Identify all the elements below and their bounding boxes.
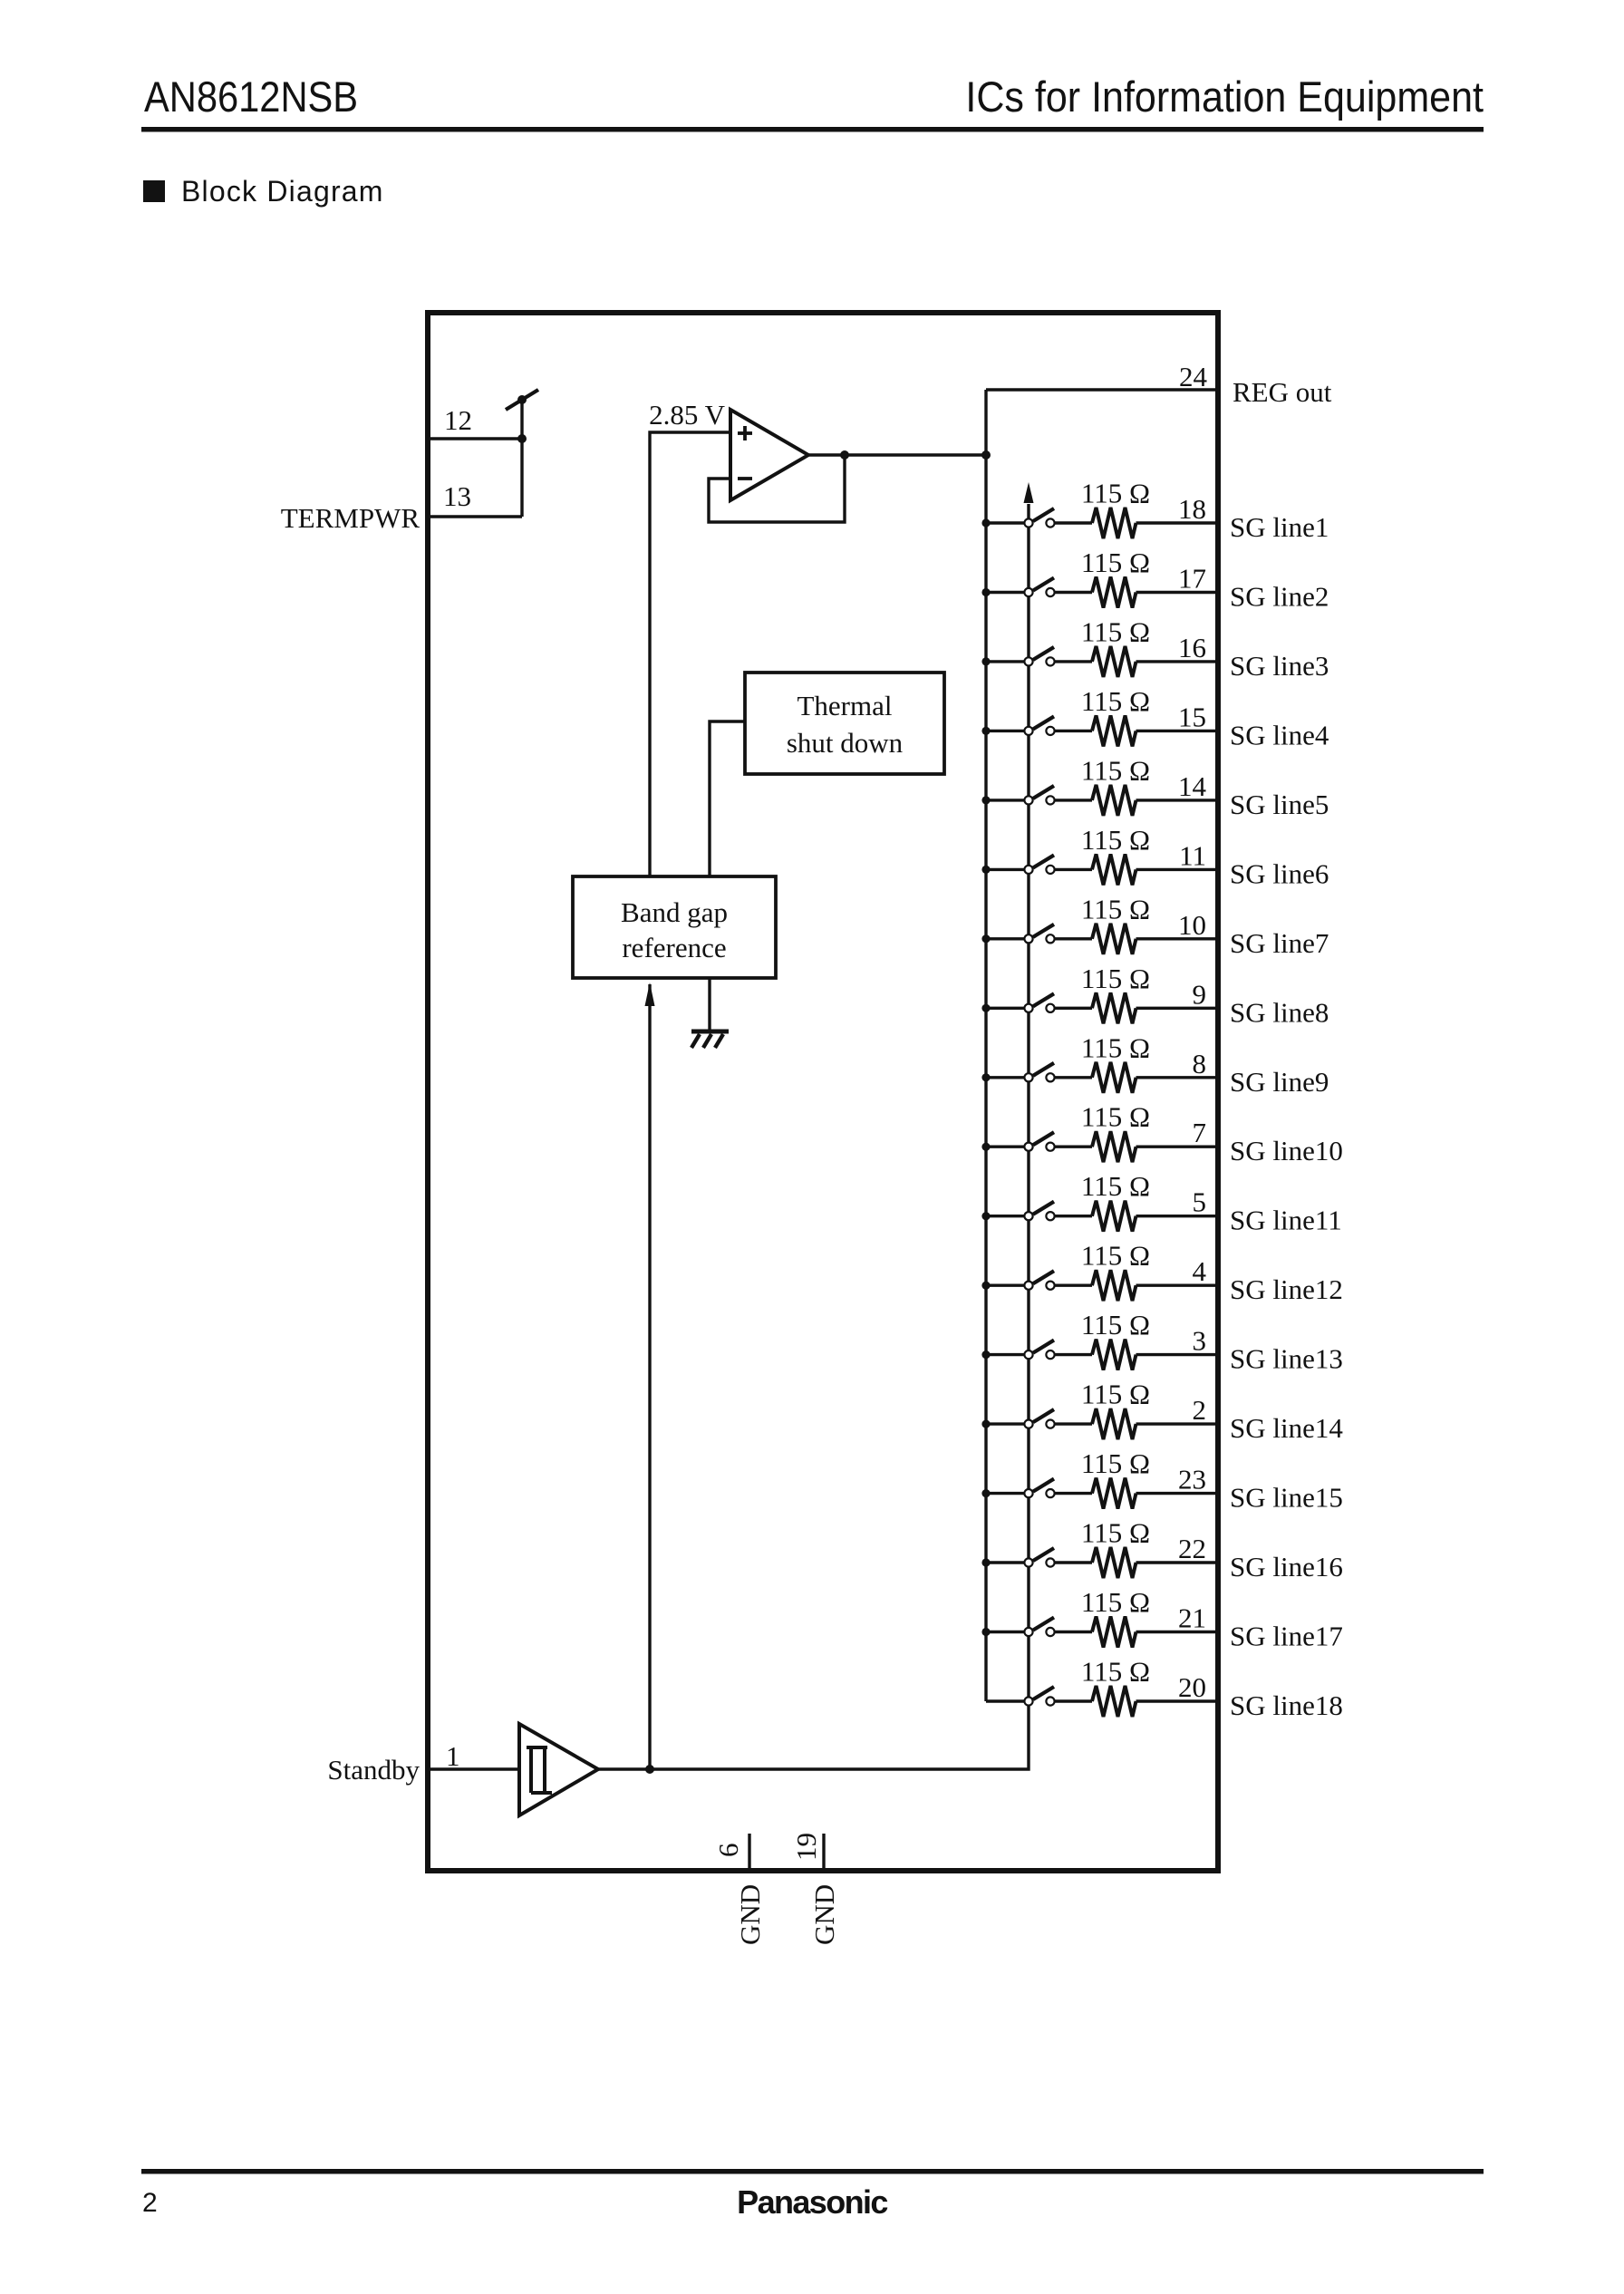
switch SW12 pivot — [1024, 1282, 1032, 1290]
svg-text:20: 20 — [1178, 1671, 1206, 1703]
wire standby input stub — [428, 1767, 519, 1770]
junction bus row 6 — [981, 866, 990, 874]
svg-text:SG line10: SG line10 — [1230, 1135, 1343, 1166]
svg-text:12: 12 — [444, 404, 472, 436]
resistor R9 — [1092, 1062, 1136, 1093]
wire REG out — [986, 388, 1218, 391]
wire GND pin 19 stub — [822, 1834, 825, 1871]
wire switch to resistor row 8 — [1055, 1007, 1092, 1010]
switch SW5 blade — [1033, 786, 1054, 799]
svg-text:11: 11 — [1179, 839, 1206, 871]
switch SW1 contact — [1046, 518, 1054, 527]
IC outline box — [428, 313, 1218, 1871]
switch SW0 blade — [506, 390, 538, 410]
op-amp U1 body — [730, 410, 808, 500]
svg-text:115 Ω: 115 Ω — [1081, 685, 1150, 717]
svg-text:shut down: shut down — [787, 727, 904, 759]
switch SW4 contact — [1046, 727, 1054, 735]
section heading: Block Diagram — [143, 175, 384, 208]
svg-text:SG line14: SG line14 — [1230, 1412, 1343, 1444]
wire feedback loop to − input — [709, 455, 845, 522]
switch SW17 pivot — [1024, 1628, 1032, 1636]
junction bus row 1 — [981, 518, 990, 527]
wire SG row 5 from bus to switch — [986, 799, 1024, 801]
wire op-amp output — [808, 453, 986, 456]
svg-text:2: 2 — [142, 2188, 158, 2218]
wire switch to resistor row 14 — [1055, 1422, 1092, 1425]
wire switch control line from standby buffer — [598, 504, 1029, 1769]
wire SG row 3 from bus to switch — [986, 660, 1024, 663]
switch SW6 blade — [1033, 855, 1054, 867]
svg-text:Thermal: Thermal — [797, 690, 892, 721]
junction bus row 7 — [981, 934, 990, 943]
wire pin12 stub — [428, 437, 522, 440]
wire 2.85V reference from band gap to op-amp + input — [650, 432, 730, 876]
wire SG row 18 from bus to switch — [986, 1699, 1024, 1702]
resistor R15 — [1092, 1478, 1136, 1509]
junction bus row 4 — [981, 727, 990, 735]
resistor R2 — [1092, 577, 1136, 608]
wire joining pins 12 and 13 — [520, 400, 523, 517]
switch SW13 blade — [1033, 1341, 1054, 1353]
wire pin13 stub — [428, 515, 522, 518]
svg-text:SG line13: SG line13 — [1230, 1343, 1343, 1375]
resistor R6 — [1092, 854, 1136, 885]
junction pin12/13 tie — [517, 434, 527, 443]
wire resistor to pin row 6 — [1136, 868, 1219, 871]
switch SW18 contact — [1046, 1697, 1054, 1705]
svg-text:SG line8: SG line8 — [1230, 996, 1329, 1028]
svg-text:115 Ω: 115 Ω — [1081, 1309, 1150, 1341]
svg-text:SG line18: SG line18 — [1230, 1689, 1343, 1721]
svg-text:SG line17: SG line17 — [1230, 1621, 1343, 1652]
svg-text:115 Ω: 115 Ω — [1081, 1586, 1150, 1618]
arrowhead into band gap reference — [645, 982, 655, 1006]
svg-text:18: 18 — [1178, 493, 1206, 525]
svg-text:Band gap: Band gap — [621, 896, 728, 928]
svg-text:Standby: Standby — [327, 1754, 420, 1786]
wire resistor to pin row 9 — [1136, 1076, 1219, 1079]
switch SW10 contact — [1046, 1143, 1054, 1151]
svg-text:115 Ω: 115 Ω — [1081, 1447, 1150, 1479]
wire resistor to pin row 3 — [1136, 660, 1219, 663]
wire band gap to ground — [708, 978, 710, 1031]
switch SW9 pivot — [1024, 1073, 1032, 1081]
wire switch to resistor row 15 — [1055, 1492, 1092, 1495]
svg-text:5: 5 — [1193, 1186, 1207, 1218]
wire switch to resistor row 5 — [1055, 799, 1092, 801]
switch SW14 blade — [1033, 1409, 1054, 1422]
op-amp − symbol — [738, 477, 752, 480]
wire switch to resistor row 9 — [1055, 1076, 1092, 1079]
svg-text:3: 3 — [1193, 1325, 1207, 1357]
switch SW5 pivot — [1024, 796, 1032, 804]
arrowhead switch control — [1024, 482, 1034, 503]
switch SW11 pivot — [1024, 1212, 1032, 1220]
svg-text:1: 1 — [446, 1740, 460, 1772]
junction bus row 2 — [981, 588, 990, 596]
wire SG row 1 from bus to switch — [986, 521, 1024, 524]
switch SW17 contact — [1046, 1628, 1054, 1636]
junction bus row 3 — [981, 657, 990, 665]
wire REG bus vertical — [984, 390, 987, 1701]
wire resistor to pin row 2 — [1136, 591, 1219, 594]
wire standby node up to band gap (bias enable) — [648, 984, 651, 1769]
svg-text:115 Ω: 115 Ω — [1081, 615, 1150, 647]
block: Band gap reference — [573, 876, 776, 978]
svg-text:115 Ω: 115 Ω — [1081, 1170, 1150, 1202]
junction bus row 10 — [981, 1143, 990, 1151]
switch SW16 pivot — [1024, 1558, 1032, 1566]
switch SW3 contact — [1046, 657, 1054, 665]
switch SW15 blade — [1033, 1479, 1054, 1492]
wire SG row 8 from bus to switch — [986, 1007, 1024, 1010]
wire SG row 13 from bus to switch — [986, 1353, 1024, 1356]
wire SG row 7 from bus to switch — [986, 937, 1024, 940]
resistor R4 — [1092, 715, 1136, 746]
resistor R5 — [1092, 785, 1136, 816]
svg-text:Panasonic: Panasonic — [737, 2183, 887, 2221]
resistor R12 — [1092, 1270, 1136, 1301]
switch SW16 blade — [1033, 1548, 1054, 1561]
switch SW6 pivot — [1024, 866, 1032, 874]
wire resistor to pin row 5 — [1136, 799, 1219, 801]
svg-text:SG line1: SG line1 — [1230, 511, 1329, 543]
resistor R13 — [1092, 1340, 1136, 1370]
junction bus row 11 — [981, 1212, 990, 1220]
svg-text:Block Diagram: Block Diagram — [181, 175, 384, 208]
svg-text:14: 14 — [1178, 770, 1207, 802]
wire resistor to pin row 15 — [1136, 1492, 1219, 1495]
footer rule — [141, 2169, 1484, 2174]
svg-text:SG line12: SG line12 — [1230, 1273, 1343, 1305]
svg-text:GND: GND — [734, 1884, 766, 1945]
wire SG row 16 from bus to switch — [986, 1561, 1024, 1563]
wire SG row 10 from bus to switch — [986, 1145, 1024, 1147]
resistor R1 — [1092, 508, 1136, 538]
switch SW7 blade — [1033, 924, 1054, 937]
svg-text:REG out: REG out — [1232, 376, 1332, 408]
svg-text:8: 8 — [1193, 1048, 1207, 1079]
switch SW1 pivot — [1024, 518, 1032, 527]
svg-text:TERMPWR: TERMPWR — [281, 502, 420, 534]
svg-text:115 Ω: 115 Ω — [1081, 478, 1150, 509]
resistor R8 — [1092, 992, 1136, 1023]
switch SW13 pivot — [1024, 1350, 1032, 1359]
wire switch to resistor row 2 — [1055, 591, 1092, 594]
svg-text:SG line4: SG line4 — [1230, 719, 1329, 750]
switch SW1 blade — [1033, 508, 1054, 521]
wire SG row 15 from bus to switch — [986, 1492, 1024, 1495]
wire SG row 4 from bus to switch — [986, 730, 1024, 732]
svg-text:7: 7 — [1193, 1117, 1207, 1148]
switch SW10 blade — [1033, 1132, 1054, 1145]
resistor R18 — [1092, 1686, 1136, 1717]
wire resistor to pin row 14 — [1136, 1422, 1219, 1425]
svg-text:115 Ω: 115 Ω — [1081, 1656, 1150, 1688]
switch SW8 pivot — [1024, 1004, 1032, 1012]
switch SW18 pivot — [1024, 1697, 1032, 1705]
switch SW16 contact — [1046, 1558, 1054, 1566]
wire SG row 6 from bus to switch — [986, 868, 1024, 871]
svg-text:ICs for Information Equipment: ICs for Information Equipment — [965, 73, 1484, 121]
junction bus row 14 — [981, 1420, 990, 1428]
svg-text:115 Ω: 115 Ω — [1081, 754, 1150, 786]
svg-text:reference: reference — [622, 932, 726, 963]
wire switch to resistor row 16 — [1055, 1561, 1092, 1563]
block: Thermal shut down — [745, 673, 944, 774]
switch SW14 contact — [1046, 1420, 1054, 1428]
svg-text:2: 2 — [1193, 1394, 1207, 1426]
switch SW7 pivot — [1024, 934, 1032, 943]
op-amp + symbol — [738, 426, 752, 440]
svg-text:22: 22 — [1178, 1533, 1206, 1564]
wire SG row 9 from bus to switch — [986, 1076, 1024, 1079]
wire SG row 12 from bus to switch — [986, 1283, 1024, 1286]
wire switch to resistor row 4 — [1055, 730, 1092, 732]
svg-text:15: 15 — [1178, 701, 1206, 732]
svg-text:SG line6: SG line6 — [1230, 857, 1329, 889]
svg-text:23: 23 — [1178, 1464, 1206, 1495]
svg-text:10: 10 — [1178, 909, 1206, 941]
svg-text:SG line7: SG line7 — [1230, 927, 1329, 959]
svg-text:SG line11: SG line11 — [1230, 1205, 1342, 1236]
svg-text:SG line3: SG line3 — [1230, 650, 1329, 682]
wire switch to resistor row 17 — [1055, 1631, 1092, 1633]
header rule — [141, 127, 1484, 132]
switch SW0 (TERMPWR) pivot — [517, 395, 527, 404]
switch SW12 blade — [1033, 1271, 1054, 1283]
switch SW7 contact — [1046, 934, 1054, 943]
svg-text:SG line9: SG line9 — [1230, 1066, 1329, 1098]
svg-text:AN8612NSB: AN8612NSB — [144, 74, 358, 121]
switch SW17 blade — [1033, 1618, 1054, 1631]
wire switch to resistor row 18 — [1055, 1699, 1092, 1702]
switch SW6 contact — [1046, 866, 1054, 874]
wire SG row 14 from bus to switch — [986, 1422, 1024, 1425]
svg-text:16: 16 — [1178, 632, 1206, 663]
wire resistor to pin row 7 — [1136, 937, 1219, 940]
svg-text:4: 4 — [1193, 1255, 1207, 1287]
svg-text:21: 21 — [1178, 1602, 1206, 1634]
wire resistor to pin row 10 — [1136, 1145, 1219, 1147]
switch SW14 pivot — [1024, 1420, 1032, 1428]
junction bus row 15 — [981, 1489, 990, 1497]
wire switch to resistor row 10 — [1055, 1145, 1092, 1147]
svg-text:SG line15: SG line15 — [1230, 1482, 1343, 1514]
wire switch to resistor row 6 — [1055, 868, 1092, 871]
resistor R10 — [1092, 1131, 1136, 1162]
wire GND pin 6 stub — [748, 1834, 750, 1871]
wire switch to resistor row 13 — [1055, 1353, 1092, 1356]
switch SW11 contact — [1046, 1212, 1054, 1220]
switch SW8 blade — [1033, 993, 1054, 1006]
wire resistor to pin row 16 — [1136, 1561, 1219, 1563]
wire switch to resistor row 3 — [1055, 660, 1092, 663]
wire switch to resistor row 1 — [1055, 521, 1092, 524]
switch SW9 blade — [1033, 1063, 1054, 1076]
switch SW2 contact — [1046, 588, 1054, 596]
switch SW15 contact — [1046, 1489, 1054, 1497]
junction bus row 13 — [981, 1350, 990, 1359]
svg-text:115 Ω: 115 Ω — [1081, 1240, 1150, 1272]
svg-text:115 Ω: 115 Ω — [1081, 893, 1150, 924]
junction bus row 9 — [981, 1073, 990, 1081]
switch SW8 contact — [1046, 1004, 1054, 1012]
svg-text:115 Ω: 115 Ω — [1081, 824, 1150, 856]
resistor R11 — [1092, 1201, 1136, 1232]
svg-text:115 Ω: 115 Ω — [1081, 1101, 1150, 1133]
junction bus row 5 — [981, 796, 990, 804]
svg-text:17: 17 — [1178, 563, 1206, 595]
switch SW10 pivot — [1024, 1143, 1032, 1151]
switch SW13 contact — [1046, 1350, 1054, 1359]
wire switch to resistor row 11 — [1055, 1215, 1092, 1217]
wire resistor to pin row 8 — [1136, 1007, 1219, 1010]
svg-text:115 Ω: 115 Ω — [1081, 547, 1150, 578]
switch SW18 blade — [1033, 1687, 1054, 1699]
wire resistor to pin row 1 — [1136, 521, 1219, 524]
wire SG row 17 from bus to switch — [986, 1631, 1024, 1633]
svg-text:6: 6 — [712, 1844, 744, 1858]
wire resistor to pin row 18 — [1136, 1699, 1219, 1702]
svg-text:SG line16: SG line16 — [1230, 1551, 1343, 1583]
wire resistor to pin row 13 — [1136, 1353, 1219, 1356]
buffer U2 (schmitt input) body — [519, 1724, 598, 1815]
wire switch to resistor row 12 — [1055, 1283, 1092, 1286]
ground — [691, 1031, 729, 1048]
switch SW4 blade — [1033, 716, 1054, 729]
svg-text:115 Ω: 115 Ω — [1081, 1031, 1150, 1063]
resistor R3 — [1092, 646, 1136, 677]
wire resistor to pin row 12 — [1136, 1283, 1219, 1286]
wire SG row 11 from bus to switch — [986, 1215, 1024, 1217]
svg-text:2.85 V: 2.85 V — [649, 399, 725, 431]
junction bus row 17 — [981, 1628, 990, 1636]
resistor R7 — [1092, 924, 1136, 954]
switch SW2 pivot — [1024, 588, 1032, 596]
junction op-amp output / feedback — [840, 450, 849, 460]
svg-text:SG line2: SG line2 — [1230, 581, 1329, 613]
svg-text:115 Ω: 115 Ω — [1081, 1379, 1150, 1410]
svg-text:115 Ω: 115 Ω — [1081, 1517, 1150, 1549]
wire SG row 2 from bus to switch — [986, 591, 1024, 594]
junction standby output / band gap branch — [645, 1765, 654, 1774]
svg-text:SG line5: SG line5 — [1230, 789, 1329, 820]
junction bus row 12 — [981, 1282, 990, 1290]
switch SW4 pivot — [1024, 727, 1032, 735]
wire resistor to pin row 4 — [1136, 730, 1219, 732]
wire resistor to pin row 11 — [1136, 1215, 1219, 1217]
switch SW3 pivot — [1024, 657, 1032, 665]
junction bus row 8 — [981, 1004, 990, 1012]
switch SW5 contact — [1046, 796, 1054, 804]
svg-text:115 Ω: 115 Ω — [1081, 963, 1150, 994]
switch SW11 blade — [1033, 1202, 1054, 1215]
switch SW9 contact — [1046, 1073, 1054, 1081]
svg-text:24: 24 — [1179, 361, 1208, 392]
switch SW15 pivot — [1024, 1489, 1032, 1497]
resistor R16 — [1092, 1547, 1136, 1578]
junction bus row 16 — [981, 1558, 990, 1566]
buffer U2 hysteresis symbol — [527, 1747, 552, 1793]
wire resistor to pin row 17 — [1136, 1631, 1219, 1633]
svg-text:GND: GND — [808, 1884, 840, 1945]
junction op-amp output to REG bus — [981, 450, 991, 460]
resistor R14 — [1092, 1408, 1136, 1439]
svg-text:19: 19 — [790, 1833, 822, 1861]
svg-text:9: 9 — [1193, 978, 1207, 1010]
switch SW3 blade — [1033, 647, 1054, 660]
resistor R17 — [1092, 1617, 1136, 1648]
wire switch to resistor row 7 — [1055, 937, 1092, 940]
svg-text:13: 13 — [443, 480, 471, 512]
switch SW12 contact — [1046, 1282, 1054, 1290]
wire thermal shut down to band gap — [710, 721, 745, 876]
switch SW2 blade — [1033, 578, 1054, 591]
